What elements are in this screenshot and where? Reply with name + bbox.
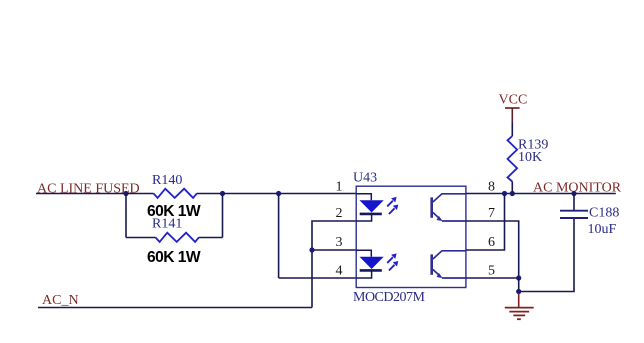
svg-text:7: 7 xyxy=(488,206,495,221)
wire AC LINE FUSED horizontal xyxy=(36,193,126,195)
resistor R139 xyxy=(508,136,518,182)
wire R139 to pin8 wire xyxy=(511,182,513,194)
wire vertical branch down to pin 4 xyxy=(278,194,280,279)
svg-text:C188: C188 xyxy=(589,206,619,221)
resistor R141 xyxy=(155,233,199,242)
junction pin4 branch xyxy=(276,191,281,196)
wire pin 7 xyxy=(466,221,519,278)
resistor R140 xyxy=(153,189,197,198)
transistor Q2 (bottom phototransistor of U43) xyxy=(432,251,466,278)
junction C188 on pin8 wire xyxy=(571,191,576,196)
svg-text:3: 3 xyxy=(336,235,343,250)
LED D1 light arrows xyxy=(387,197,398,214)
transistor Q1 (top phototransistor of U43) xyxy=(432,194,466,221)
svg-text:VCC: VCC xyxy=(499,93,528,108)
LED D2 (bottom emitter of U43) xyxy=(356,250,383,278)
pin 2 xyxy=(336,206,343,221)
svg-text:10K: 10K xyxy=(518,150,542,165)
wire R141 right lead xyxy=(199,237,223,239)
pin 5 xyxy=(488,263,495,278)
svg-text:1: 1 xyxy=(336,180,343,195)
svg-text:R141: R141 xyxy=(152,217,182,232)
svg-text:AC MONITOR: AC MONITOR xyxy=(533,180,622,195)
value 10uF xyxy=(588,222,617,237)
wire to pin 3 xyxy=(312,249,356,251)
label R139 xyxy=(518,137,548,152)
label R140 xyxy=(152,173,182,188)
pin 3 xyxy=(336,235,343,250)
wire AC_N horizontal xyxy=(38,307,312,309)
value 10K xyxy=(518,150,542,165)
svg-text:5: 5 xyxy=(488,263,495,278)
junction R139 on pin8 wire xyxy=(510,191,515,196)
pin 8 xyxy=(488,180,495,195)
wire R140 left lead xyxy=(126,193,153,195)
value 60K 1W (R141) xyxy=(147,249,201,266)
svg-text:R140: R140 xyxy=(152,173,182,188)
capacitor C188 xyxy=(560,194,588,219)
power VCC symbol xyxy=(499,93,528,123)
label R141 xyxy=(152,217,182,232)
junction left of R140 xyxy=(123,191,128,196)
svg-text:60K 1W: 60K 1W xyxy=(147,249,201,266)
LED D1 (top emitter of U43) xyxy=(356,194,383,221)
svg-text:8: 8 xyxy=(488,180,495,195)
wire pin5 junction down to ground node xyxy=(518,278,520,292)
junction pin2/pin3 xyxy=(309,247,314,252)
label C188 xyxy=(589,206,619,221)
pin 4 xyxy=(336,263,343,278)
svg-text:2: 2 xyxy=(336,206,343,221)
label U43 xyxy=(353,171,377,186)
op-amp U43 body (optocoupler box) xyxy=(356,186,466,287)
junction pin6 riser on pin8 wire xyxy=(502,191,507,196)
label MOCD207M xyxy=(353,290,426,305)
wire pin 6 xyxy=(466,194,505,251)
svg-text:AC_N: AC_N xyxy=(42,293,79,308)
value 60K 1W (R140) xyxy=(147,203,201,220)
wire right vertical branch from R141 xyxy=(222,194,224,238)
node AC_N label xyxy=(42,293,79,308)
pin 7 xyxy=(488,206,495,221)
junction pin5/pin7 xyxy=(516,275,521,280)
ground symbol xyxy=(505,293,534,319)
junction right of R140 xyxy=(220,191,225,196)
svg-text:10uF: 10uF xyxy=(588,222,617,237)
wire to pin 1 xyxy=(223,193,357,195)
wire to pin 2 xyxy=(312,221,356,308)
node AC_LINE_FUSED label xyxy=(37,182,140,197)
svg-text:4: 4 xyxy=(336,263,343,278)
wire pin 5 xyxy=(466,277,519,279)
wire pin 8 to AC MONITOR xyxy=(466,193,616,195)
pin 1 xyxy=(336,180,343,195)
svg-text:U43: U43 xyxy=(353,171,377,186)
wire ground node to C188 bottom xyxy=(519,219,574,292)
wire R140 right lead xyxy=(197,193,223,195)
svg-text:MOCD207M: MOCD207M xyxy=(353,290,426,305)
wire R141 left lead xyxy=(126,237,155,239)
wire left vertical branch to R141 xyxy=(125,194,127,238)
node AC_MONITOR label xyxy=(533,180,622,195)
wire to pin 4 xyxy=(279,277,357,279)
wire VCC to R139 xyxy=(511,123,513,137)
svg-text:6: 6 xyxy=(488,235,495,250)
LED D2 light arrows xyxy=(387,253,398,270)
pin 6 xyxy=(488,235,495,250)
junction ground node xyxy=(516,289,521,294)
